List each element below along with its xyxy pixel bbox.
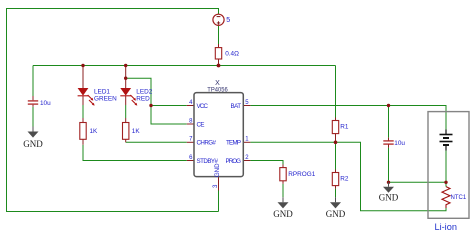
svg-text:RPROG1: RPROG1 — [288, 171, 315, 178]
svg-text:GND: GND — [326, 209, 346, 219]
svg-text:0.4Ω: 0.4Ω — [225, 51, 239, 58]
svg-text:10u: 10u — [40, 100, 51, 107]
svg-text:LED1: LED1 — [94, 89, 110, 96]
svg-text:VCC: VCC — [197, 103, 209, 110]
svg-text:R2: R2 — [340, 176, 349, 183]
svg-text:TP4056: TP4056 — [207, 87, 228, 94]
svg-text:GND: GND — [23, 139, 43, 149]
svg-text:GREEN: GREEN — [94, 96, 117, 103]
svg-text:CE: CE — [197, 121, 205, 128]
svg-text:CHRG#: CHRG# — [197, 140, 217, 147]
svg-text:PROG: PROG — [226, 158, 242, 165]
svg-text:LED2: LED2 — [136, 89, 152, 96]
svg-text:GND: GND — [273, 209, 293, 219]
svg-text:Li-ion: Li-ion — [434, 222, 456, 232]
svg-text:R1: R1 — [340, 124, 349, 131]
svg-text:BAT: BAT — [231, 103, 242, 110]
svg-text:GND: GND — [214, 163, 221, 177]
svg-text:5: 5 — [226, 17, 230, 24]
svg-text:1K: 1K — [90, 128, 99, 135]
svg-text:TEMP: TEMP — [226, 140, 241, 147]
svg-text:RED: RED — [136, 96, 150, 103]
svg-text:GND: GND — [379, 193, 399, 203]
svg-text:1K: 1K — [132, 128, 141, 135]
svg-text:10u: 10u — [394, 140, 405, 147]
svg-text:NTC1: NTC1 — [451, 195, 467, 201]
